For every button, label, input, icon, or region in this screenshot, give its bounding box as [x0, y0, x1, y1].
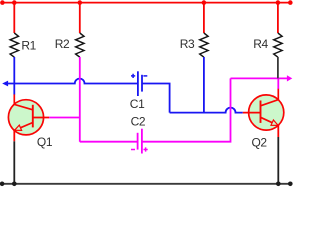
wire R3 top lead (red): [203, 3, 205, 33]
C2 plus sign: [144, 147, 148, 151]
wire R1 top lead (red): [13, 3, 15, 33]
svg-text:R2: R2: [55, 37, 70, 51]
Q2 base bar: [260, 101, 262, 123]
capacitor C2 plate right (+): [141, 129, 143, 154]
transistor Q1 body: [8, 100, 43, 135]
Q2 emitter lead: [261, 117, 279, 125]
Q1 emitter lead: [15, 123, 33, 131]
capacitor C1 plate right: [141, 75, 143, 92]
wire R3 bottom lead (blue): [203, 57, 205, 113]
wire magenta net C2 right to riser: [142, 78, 231, 141]
junction Q1 emitter/ground: [12, 182, 17, 187]
Q2 collector lead: [261, 89, 279, 106]
junction R3/top rail: [202, 0, 207, 5]
capacitor C2 plate left: [137, 133, 139, 150]
svg-text:R4: R4: [253, 37, 268, 51]
junction R4/top rail: [276, 0, 281, 5]
junction top-left corner: [0, 0, 5, 5]
wire R2 top lead (red): [79, 3, 81, 33]
C1 minus sign: [143, 75, 147, 77]
svg-text:R1: R1: [21, 38, 36, 52]
wire magenta net top horizontal to output: [231, 77, 288, 79]
C1 plus sign: [131, 74, 135, 78]
junction bottom-right corner: [288, 182, 293, 187]
resistor R4: [274, 33, 282, 57]
Q1 base bar: [32, 105, 34, 128]
arrow output right (magenta): [287, 75, 292, 81]
wire Q2 collector drop (magenta): [277, 78, 279, 89]
wire R4 top lead (red): [277, 3, 279, 33]
transistor Q2 body: [249, 95, 284, 130]
svg-text:C2: C2: [131, 115, 146, 129]
junction top-right corner: [288, 0, 293, 5]
power rail +V top: [2, 2, 290, 4]
Q1 base lead: [33, 117, 49, 119]
resistor R1: [10, 33, 18, 57]
wire Q1 base to magenta riser: [49, 117, 80, 119]
wire R2 bottom lead / magenta riser left: [79, 57, 81, 142]
svg-text:Q2: Q2: [252, 135, 268, 149]
svg-text:R3: R3: [180, 37, 195, 51]
Q2 emitter arrowhead: [271, 120, 278, 125]
wire magenta net horizontal to C2: [80, 141, 138, 143]
Q2 base lead: [243, 112, 261, 114]
C2 minus sign: [131, 149, 135, 151]
junction R1/top rail: [12, 0, 17, 5]
junction Q2 emitter/ground: [276, 182, 281, 187]
wire R4 bottom lead (dark): [277, 57, 279, 78]
arrow output left (blue): [2, 81, 8, 87]
resistor R2: [76, 33, 84, 57]
junction R2/top rail: [78, 0, 83, 5]
Q1 emitter arrowhead: [15, 125, 22, 130]
svg-text:Q1: Q1: [37, 135, 53, 149]
Q1 emitter stub (red): [13, 130, 15, 141]
wire blue net C1 right to corner riser: [142, 84, 170, 113]
wire blue net horizontal right with hop over magenta riser: [170, 108, 243, 113]
capacitor C1 plate left (+): [137, 71, 139, 96]
svg-text:C1: C1: [130, 97, 145, 111]
wire Q1 emitter to ground rail (black): [13, 141, 15, 184]
Q1 collector lead: [14, 94, 33, 109]
junction bottom-left corner: [0, 182, 4, 187]
resistor R3: [200, 33, 208, 57]
wire Q2 emitter to ground rail (black): [277, 137, 279, 184]
wire R1 bottom lead + Q1 collector drop (blue): [13, 57, 15, 95]
wire blue net horizontal left with hop over magenta riser: [8, 79, 138, 84]
ground rail bottom: [2, 183, 290, 185]
Q2 emitter stub (red): [277, 125, 279, 137]
